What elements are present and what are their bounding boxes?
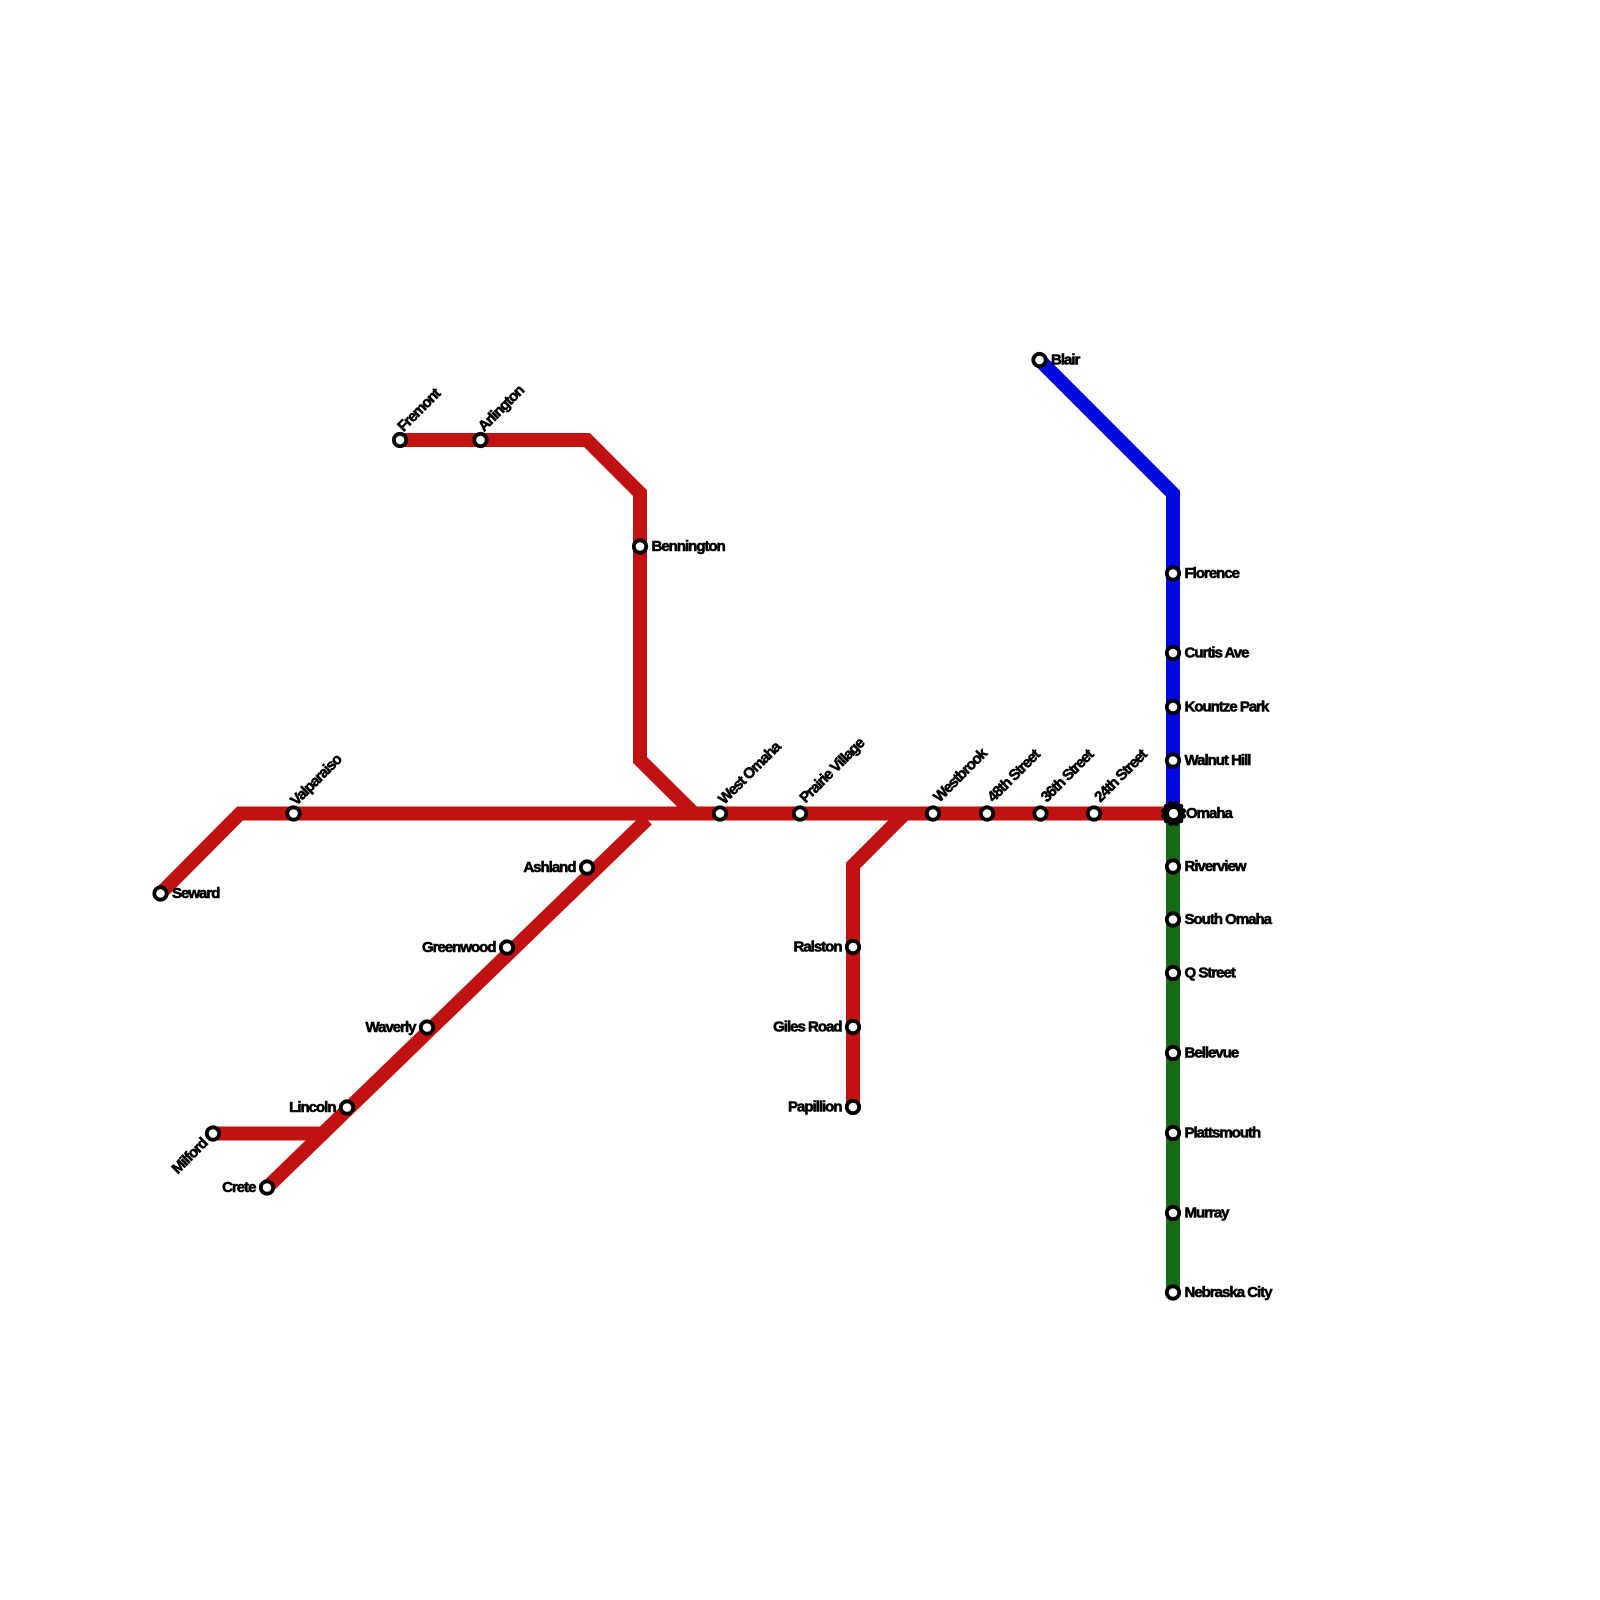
svg-text:Riverview: Riverview: [1185, 858, 1247, 875]
node 36th Street: [1034, 746, 1097, 820]
red line: Milford branch wire: [213, 1127, 326, 1141]
node West Omaha: [714, 738, 785, 820]
svg-text:Waverly: Waverly: [366, 1019, 418, 1036]
svg-text:Plattsmouth: Plattsmouth: [1185, 1125, 1262, 1142]
svg-text:Walnut Hill: Walnut Hill: [1185, 752, 1252, 769]
node Giles Road: [773, 1019, 859, 1036]
node Ralston: [793, 939, 859, 956]
green line: Omaha-Nebraska City wire: [1166, 814, 1180, 1293]
node Bellevue: [1167, 1045, 1239, 1062]
svg-text:Murray: Murray: [1185, 1205, 1231, 1222]
node Waverly: [366, 1019, 434, 1036]
node Lincoln: [289, 1099, 353, 1116]
node Prairie Village: [794, 735, 869, 820]
node Curtis Ave: [1167, 645, 1249, 662]
node Riverview: [1167, 858, 1247, 875]
node 24th Street: [1088, 746, 1151, 820]
node South Omaha: [1167, 911, 1273, 928]
node 48th Street: [981, 746, 1044, 820]
node Westbrook: [927, 744, 992, 819]
node Seward: [154, 885, 220, 902]
svg-text:Giles Road: Giles Road: [773, 1019, 842, 1036]
node Papillion: [788, 1099, 859, 1116]
node Fremont: [394, 385, 445, 446]
svg-text:Q Street: Q Street: [1185, 965, 1236, 982]
svg-text:Ralston: Ralston: [793, 939, 842, 956]
red line: Fremont branch wire: [400, 440, 694, 814]
node Walnut Hill: [1167, 752, 1251, 769]
svg-text:Nebraska City: Nebraska City: [1185, 1284, 1274, 1301]
svg-text:Omaha: Omaha: [1186, 805, 1234, 822]
node Crete: [222, 1179, 273, 1196]
svg-text:Blair: Blair: [1051, 352, 1081, 369]
svg-text:Curtis Ave: Curtis Ave: [1185, 645, 1250, 662]
node Ashland: [523, 859, 593, 876]
svg-text:Papillion: Papillion: [788, 1099, 842, 1116]
node Plattsmouth: [1167, 1125, 1261, 1142]
node Kountze Park: [1167, 699, 1270, 716]
blue line: Blair-Omaha wire: [1040, 360, 1174, 814]
svg-text:Kountze Park: Kountze Park: [1185, 699, 1271, 716]
svg-text:South Omaha: South Omaha: [1185, 911, 1273, 928]
svg-text:Florence: Florence: [1185, 565, 1240, 582]
node Nebraska City: [1167, 1284, 1273, 1301]
node Valparaiso: [287, 751, 346, 820]
node Florence: [1167, 565, 1240, 582]
svg-text:Bellevue: Bellevue: [1185, 1045, 1239, 1062]
svg-text:Seward: Seward: [172, 885, 220, 902]
node Blair: [1033, 352, 1080, 369]
svg-text:Lincoln: Lincoln: [289, 1099, 336, 1116]
red line: main horizontal wire Seward-Omaha: [161, 814, 1175, 894]
svg-text:Greenwood: Greenwood: [422, 939, 496, 956]
svg-text:Crete: Crete: [222, 1179, 256, 1196]
svg-text:Ashland: Ashland: [523, 859, 576, 876]
node Greenwood: [422, 939, 513, 956]
node Murray: [1167, 1205, 1230, 1222]
node Milford: [169, 1127, 220, 1177]
node Bennington: [634, 538, 726, 555]
node Q Street: [1167, 965, 1236, 982]
red line: Ashland-Crete diagonal wire: [267, 820, 647, 1188]
node Arlington: [474, 382, 528, 447]
node Omaha interchange: [1161, 801, 1186, 826]
svg-text:Bennington: Bennington: [652, 538, 726, 555]
red line: Papillion branch wire: [853, 814, 905, 1108]
